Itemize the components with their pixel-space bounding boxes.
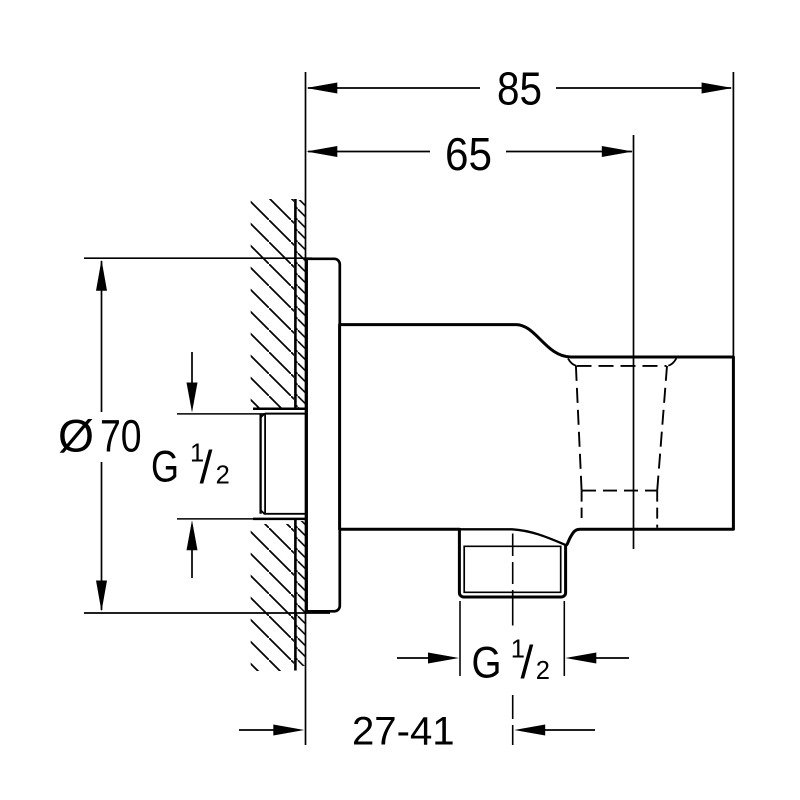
back inlet chamfer line top [265, 413, 305, 415]
dimension diameter 70 top arrow [96, 260, 107, 291]
extension line diameter top [84, 257, 312, 259]
wall face line [294, 199, 297, 671]
dimension 65 right arrow [602, 146, 633, 157]
inlet dimension upper arrow [191, 352, 193, 384]
tile layer fine hatch lower [296, 521, 305, 666]
hidden line below cone left [581, 491, 583, 518]
extension line inlet bottom [177, 518, 305, 520]
svg-text:27-41: 27-41 [352, 709, 455, 753]
back inlet body fill [256, 410, 305, 519]
svg-text:2: 2 [216, 461, 230, 489]
svg-text:G: G [472, 639, 502, 688]
extension line wall face (85/65/27-41 datum) [305, 72, 307, 745]
svg-text:70: 70 [100, 411, 142, 462]
holder socket hidden cone bottom [582, 490, 657, 492]
svg-text:Ø: Ø [58, 411, 94, 462]
back inlet chamfer diagonal top [260, 413, 265, 417]
extension line holder center (65) [633, 135, 635, 549]
outlet flare curve [459, 529, 565, 545]
back inlet end face [259, 414, 261, 514]
svg-text:G: G [151, 443, 179, 492]
holder socket hidden cone top [577, 365, 667, 367]
outlet G 1/2 extension line right [563, 601, 565, 676]
back inlet chamfer vertical [264, 414, 266, 514]
dimension diameter 70 bottom arrow [96, 581, 107, 612]
inlet dimension lower arrow [191, 549, 193, 578]
body and outlet silhouette [340, 325, 734, 597]
dimension 85 right arrow [702, 83, 733, 94]
dimension 85 left arrow [306, 83, 337, 94]
holder socket recess tick right [668, 358, 676, 365]
wall hatch lower section [251, 524, 294, 671]
outlet thread chamfer box [464, 546, 561, 592]
outlet G 1/2 dimension right arrow [594, 657, 629, 659]
holder socket recess tick left [568, 358, 576, 365]
hidden line below cone right [656, 491, 658, 528]
extension line diameter bottom [84, 612, 330, 614]
escutcheon plate [307, 259, 340, 612]
dimension 27-41 right arrow [544, 729, 595, 731]
outlet centerline [512, 534, 514, 746]
dimension 65 line [308, 151, 632, 153]
wall hatch upper section [251, 199, 294, 408]
dimension 85 line [308, 87, 731, 89]
dimension 27-41 left arrow [239, 729, 275, 731]
outlet G 1/2 dimension left arrow [397, 657, 430, 659]
tile layer fine hatch upper [296, 200, 305, 408]
back inlet chamfer diagonal bottom [260, 510, 265, 514]
svg-text:85: 85 [497, 63, 542, 115]
dimension diameter 70 line [101, 261, 103, 610]
svg-text:65: 65 [445, 128, 492, 180]
back inlet thread OD top [253, 407, 305, 410]
dimension 65 left arrow [306, 146, 337, 157]
back inlet thread OD bottom [253, 518, 305, 521]
holder socket hidden cone right side [657, 366, 667, 491]
svg-text:/: / [200, 441, 213, 493]
svg-text:/: / [521, 636, 534, 688]
extension line right end of body (85) [732, 72, 734, 357]
back inlet chamfer line bottom [265, 513, 305, 515]
extension line inlet top [177, 413, 305, 415]
holder socket hidden cone left side [576, 366, 582, 491]
outlet G 1/2 extension line left [459, 601, 461, 676]
svg-text:2: 2 [536, 657, 550, 685]
